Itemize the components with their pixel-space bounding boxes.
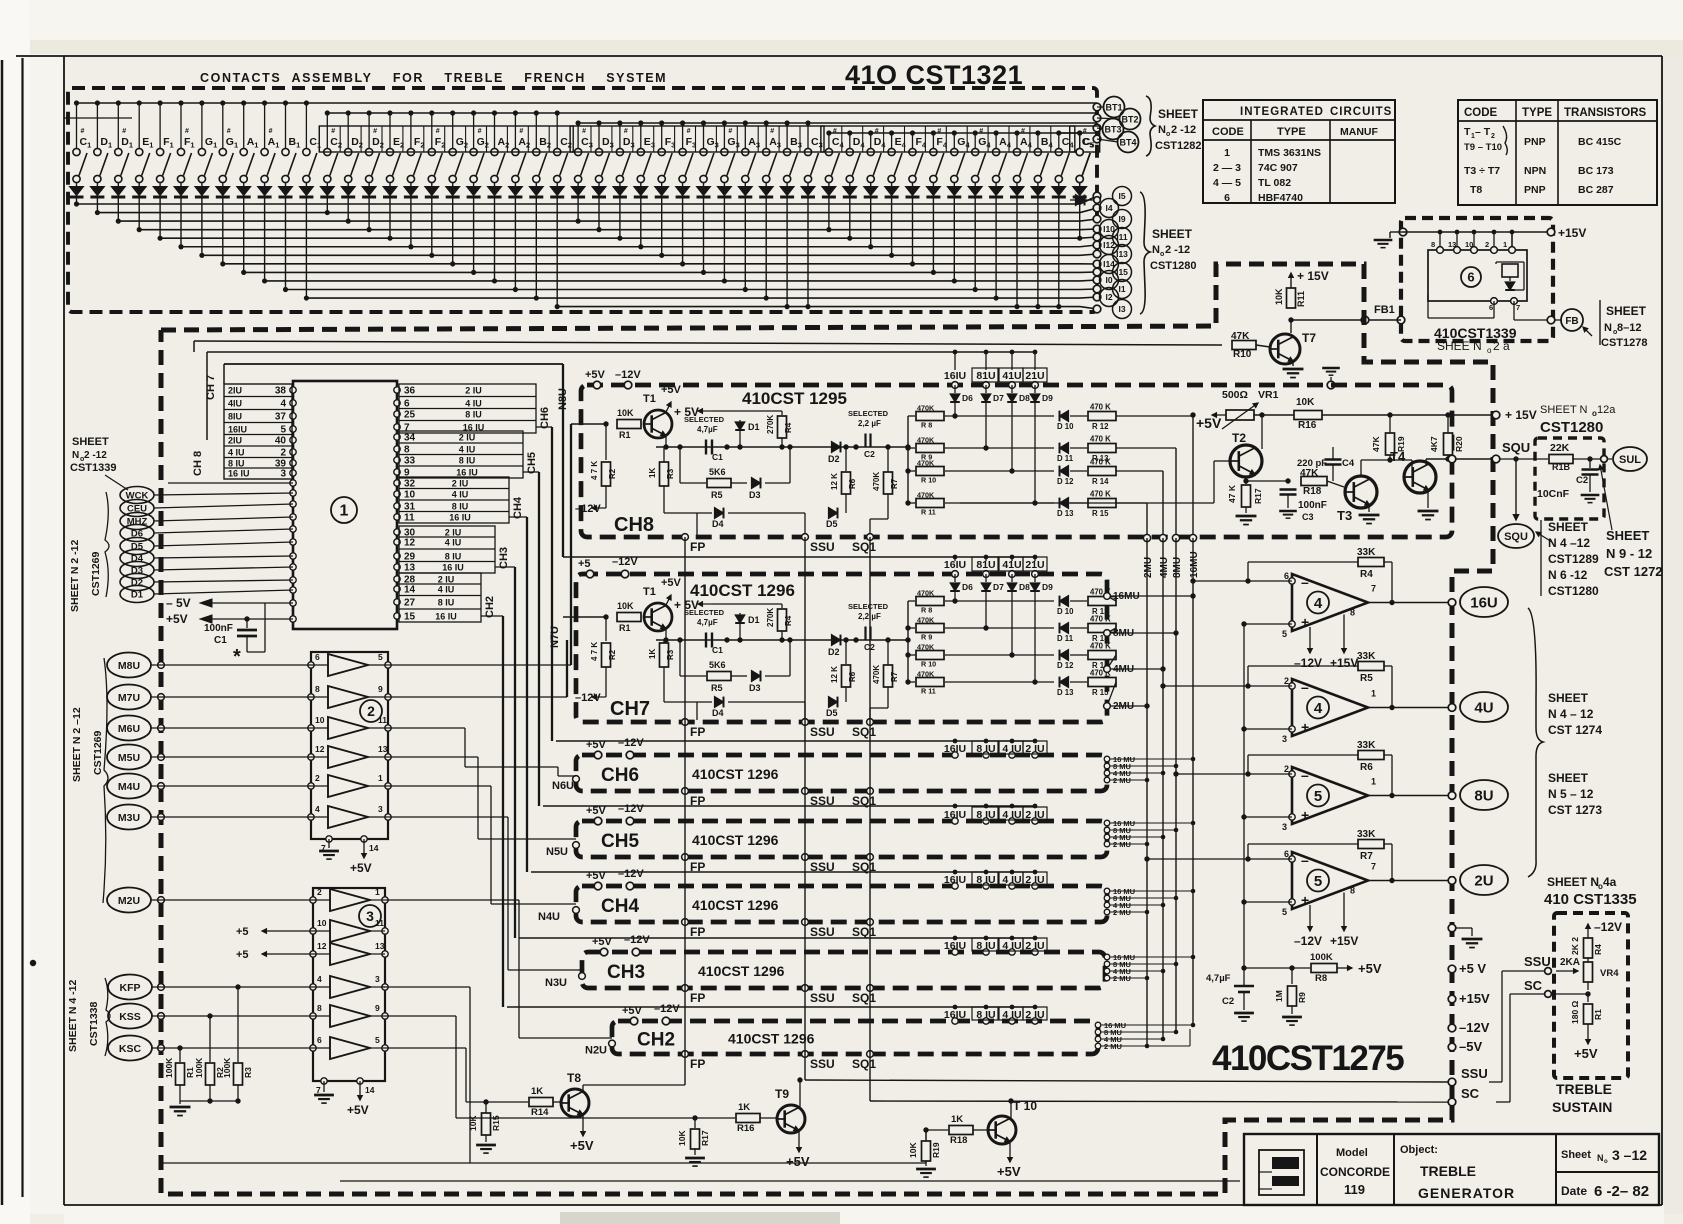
CH3 MU outputs to buses bbox=[1104, 954, 1110, 960]
svg-text:8: 8 bbox=[404, 445, 410, 456]
+5V rail to +15V terminal bbox=[1226, 414, 1496, 416]
svg-text:I9: I9 bbox=[1118, 214, 1125, 224]
svg-text:9: 9 bbox=[378, 684, 383, 694]
VR4 wiper to SC bbox=[1587, 982, 1589, 990]
resistor R2 47K bbox=[605, 617, 607, 641]
svg-text:100K: 100K bbox=[222, 1057, 232, 1078]
svg-text:8: 8 bbox=[315, 684, 320, 694]
svg-text:–12V: –12V bbox=[575, 503, 601, 515]
svg-text:R 10: R 10 bbox=[921, 476, 936, 485]
svg-text:8: 8 bbox=[317, 1003, 322, 1013]
svg-text:4 IU: 4 IU bbox=[438, 585, 455, 595]
svg-text:#: # bbox=[728, 128, 732, 135]
svg-text:R 11: R 11 bbox=[921, 508, 936, 517]
svg-text:#: # bbox=[1083, 128, 1087, 135]
svg-text:SQ1: SQ1 bbox=[852, 725, 876, 739]
svg-text:R 12: R 12 bbox=[1092, 422, 1109, 431]
svg-text:FP: FP bbox=[690, 540, 705, 554]
svg-text:I13: I13 bbox=[1116, 249, 1128, 259]
svg-text:CST 1272: CST 1272 bbox=[1604, 564, 1663, 579]
svg-text:D9: D9 bbox=[1042, 582, 1053, 592]
svg-text:5: 5 bbox=[1282, 907, 1287, 917]
T4 emitter ground bbox=[1427, 489, 1429, 508]
svg-text:7: 7 bbox=[1371, 862, 1376, 872]
svg-text:10: 10 bbox=[404, 490, 416, 501]
svg-text:+5V: +5V bbox=[570, 1138, 594, 1153]
svg-text:4 IU: 4 IU bbox=[459, 445, 476, 455]
svg-text:16U: 16U bbox=[1470, 594, 1498, 611]
svg-text:1K: 1K bbox=[951, 1114, 963, 1125]
CH7 MU output terminals bbox=[1104, 593, 1111, 600]
svg-text:3: 3 bbox=[1282, 822, 1287, 832]
wire SSU line bbox=[805, 1080, 1448, 1082]
resistor R7 470K to SQ1 bbox=[887, 640, 889, 665]
svg-text:2 IU: 2 IU bbox=[438, 575, 455, 585]
svg-text:D 11: D 11 bbox=[1057, 634, 1074, 643]
diode D4 and FP line bbox=[663, 486, 665, 513]
svg-text:–12V: –12V bbox=[624, 934, 650, 946]
svg-text:470K: 470K bbox=[917, 491, 935, 500]
stray mark left margin bbox=[30, 960, 36, 966]
circled inputs KFP KSS KSC bbox=[108, 975, 152, 1000]
SSU SC terminals bbox=[1448, 1078, 1456, 1086]
svg-text:4: 4 bbox=[1314, 700, 1323, 717]
svg-text:+15V: +15V bbox=[1330, 934, 1358, 948]
resistor R17 10K bbox=[692, 1115, 697, 1120]
op-amp 5 output R7 bbox=[1292, 852, 1368, 909]
svg-text:8 IU: 8 IU bbox=[459, 456, 476, 466]
svg-text:2IU: 2IU bbox=[228, 386, 242, 396]
svg-text:#: # bbox=[875, 128, 879, 135]
R2 to -12V arrow bbox=[605, 486, 607, 508]
svg-text:–: – bbox=[1301, 767, 1309, 783]
svg-text:5: 5 bbox=[378, 652, 383, 662]
svg-text:–5V: –5V bbox=[1459, 1039, 1482, 1054]
svg-text:KFP: KFP bbox=[120, 982, 141, 994]
svg-text:SHEET N: SHEET N bbox=[1547, 875, 1599, 889]
CH8 MU drop wires bbox=[1192, 416, 1194, 538]
svg-text:10: 10 bbox=[315, 715, 325, 725]
svg-text:34: 34 bbox=[404, 433, 416, 444]
svg-text:2 IU: 2 IU bbox=[459, 433, 476, 443]
svg-text:8IU: 8IU bbox=[228, 412, 242, 422]
svg-text:410 CST1335: 410 CST1335 bbox=[1544, 891, 1637, 908]
svg-text:N 5 – 12: N 5 – 12 bbox=[1548, 787, 1594, 801]
transistor T1 bbox=[644, 410, 672, 438]
CH8 MU bottom terminals and labels bbox=[1143, 534, 1150, 541]
svg-text:6: 6 bbox=[1284, 571, 1289, 581]
svg-text:1: 1 bbox=[1224, 147, 1230, 159]
svg-text:1K: 1K bbox=[738, 1102, 750, 1113]
ground at block6 input bbox=[1399, 228, 1407, 236]
capacitor C1 4.7uF selected bbox=[705, 633, 707, 648]
svg-text:CH 8: CH 8 bbox=[192, 451, 204, 476]
svg-text:BT3: BT3 bbox=[1104, 125, 1121, 135]
resistor R3 1K bbox=[663, 434, 665, 460]
svg-text:#: # bbox=[227, 128, 231, 135]
svg-text:R4: R4 bbox=[784, 615, 793, 626]
T7 emitter ground bbox=[1292, 361, 1294, 366]
block6 internal component bbox=[1502, 264, 1518, 277]
svg-text:– T: – T bbox=[1475, 126, 1491, 138]
CH2 FP SSU SQ1 terminals bbox=[682, 1051, 689, 1058]
transistor T8 bbox=[561, 1089, 589, 1117]
svg-text:74C 907: 74C 907 bbox=[1258, 162, 1298, 174]
IC block 6 dashed box 410CST1339 bbox=[1401, 218, 1553, 341]
svg-text:8U: 8U bbox=[1474, 787, 1493, 804]
svg-text:R5: R5 bbox=[711, 490, 723, 500]
resistor R6 12K and diode D5 bbox=[845, 447, 847, 471]
CH6 IU labels and feed line bbox=[556, 740, 1035, 742]
svg-text:4U: 4U bbox=[1474, 699, 1493, 716]
svg-text:–12V: –12V bbox=[618, 803, 644, 815]
long wire B bbox=[340, 1180, 1240, 1182]
ladder resistors R8-R11 470K bbox=[907, 601, 909, 682]
svg-text:12: 12 bbox=[315, 744, 325, 754]
op-amp 5 output R6 bbox=[1292, 767, 1368, 824]
svg-text:41O CST1321: 41O CST1321 bbox=[845, 60, 1023, 90]
power terminals +5V +15V -12V -5V bbox=[1448, 965, 1456, 973]
svg-text:C1: C1 bbox=[712, 452, 723, 462]
svg-text:10K: 10K bbox=[908, 1142, 918, 1158]
svg-text:R14: R14 bbox=[531, 1107, 549, 1118]
svg-text:100nF: 100nF bbox=[204, 623, 233, 634]
svg-text:3: 3 bbox=[375, 974, 380, 984]
svg-text:SSU: SSU bbox=[810, 925, 835, 939]
wire long line IC to T7 base bbox=[194, 341, 1222, 345]
svg-text:SHEET N 4 -12: SHEET N 4 -12 bbox=[67, 979, 79, 1052]
wires IC1 top to right routing bbox=[396, 341, 398, 345]
svg-text:SHEET: SHEET bbox=[1548, 691, 1589, 705]
block3 ground pin7 bbox=[323, 1081, 325, 1092]
transistor T10 bbox=[988, 1116, 1016, 1144]
svg-text:I0: I0 bbox=[1105, 275, 1112, 285]
svg-text:8 IU: 8 IU bbox=[445, 552, 462, 562]
svg-text:2 IU: 2 IU bbox=[465, 386, 482, 396]
svg-text:+15V: +15V bbox=[1330, 656, 1358, 670]
svg-text:+5V: +5V bbox=[585, 369, 606, 381]
svg-text:SQ1: SQ1 bbox=[852, 991, 876, 1005]
svg-text:R7: R7 bbox=[890, 671, 899, 682]
capacitor C2 2.2uF selected bbox=[864, 434, 866, 447]
svg-text:1: 1 bbox=[1371, 777, 1376, 787]
wire N input to R1 bbox=[571, 423, 606, 425]
T3 emitter ground bbox=[1368, 504, 1370, 512]
svg-text:SSU: SSU bbox=[1461, 1066, 1488, 1081]
svg-text:2KA: 2KA bbox=[1560, 957, 1580, 968]
svg-text:TMS 3631NS: TMS 3631NS bbox=[1258, 147, 1321, 159]
svg-text:5: 5 bbox=[280, 425, 286, 436]
svg-text:GENERATOR: GENERATOR bbox=[1418, 1185, 1515, 1201]
IC block 2 hex inverter bbox=[311, 652, 388, 839]
svg-text:#: # bbox=[185, 128, 189, 135]
CH3 IU labels and feed line bbox=[519, 937, 1035, 939]
svg-text:1M: 1M bbox=[1274, 990, 1284, 1002]
svg-text:#: # bbox=[122, 128, 126, 135]
brace sheet ref I bbox=[1140, 192, 1150, 314]
svg-text:CST1269: CST1269 bbox=[90, 551, 102, 596]
svg-text:25: 25 bbox=[404, 410, 416, 421]
capacitor C4 220pF bbox=[1288, 480, 1300, 482]
svg-text:SHEET: SHEET bbox=[1606, 304, 1647, 318]
svg-text:–12V: –12V bbox=[615, 369, 641, 381]
circled I labels bbox=[1113, 187, 1132, 206]
svg-text:7: 7 bbox=[1371, 584, 1376, 594]
svg-text:2 a: 2 a bbox=[1493, 339, 1510, 353]
svg-text:470K: 470K bbox=[917, 404, 935, 413]
resistor R18 1K bbox=[926, 1129, 948, 1131]
svg-text:470 K: 470 K bbox=[1090, 458, 1111, 467]
svg-text:R6: R6 bbox=[1360, 762, 1373, 773]
svg-text:D7: D7 bbox=[993, 582, 1004, 592]
svg-text:SHEET: SHEET bbox=[1548, 520, 1589, 534]
T1 collector wire bbox=[665, 627, 667, 640]
svg-text:#: # bbox=[81, 128, 85, 135]
svg-text:SC: SC bbox=[1524, 978, 1543, 993]
svg-text:SQ1: SQ1 bbox=[852, 925, 876, 939]
diode to I4 terminal bbox=[1079, 182, 1081, 200]
capacitor C1 4.7uF selected bbox=[705, 440, 707, 455]
svg-text:16 IU: 16 IU bbox=[449, 513, 471, 523]
svg-text:CST1338: CST1338 bbox=[88, 1001, 100, 1046]
CH6 MU outputs to buses bbox=[1104, 756, 1110, 762]
T1 emitter +5V bbox=[666, 595, 671, 605]
IC 1 TMS3631 body bbox=[293, 381, 397, 629]
svg-text:#: # bbox=[331, 128, 335, 135]
block3 +5 inputs bbox=[262, 930, 282, 932]
svg-text:TREBLE: TREBLE bbox=[1420, 1163, 1476, 1179]
capacitor C2 100nF bbox=[1589, 459, 1591, 468]
svg-text:4 7 K: 4 7 K bbox=[590, 461, 599, 480]
svg-text:T9: T9 bbox=[775, 1087, 789, 1101]
CH7 FP SSU SQ1 terminals bbox=[682, 719, 689, 726]
MU bus lower corners bbox=[1147, 1045, 1190, 1047]
svg-text:16 IU: 16 IU bbox=[228, 469, 250, 479]
svg-text:470 K: 470 K bbox=[1090, 615, 1111, 624]
svg-text:10CnF: 10CnF bbox=[1537, 488, 1570, 500]
svg-text:FP: FP bbox=[690, 925, 705, 939]
svg-text:470 K: 470 K bbox=[1090, 642, 1111, 651]
svg-text:N: N bbox=[1152, 244, 1160, 256]
svg-text:D 11: D 11 bbox=[1057, 454, 1074, 463]
svg-text:Sheet: Sheet bbox=[1561, 1149, 1591, 1161]
svg-text:12: 12 bbox=[404, 538, 416, 549]
R2 to -12V arrow bbox=[605, 667, 607, 697]
CH5 dashed box 410CST1296 bbox=[576, 821, 1107, 857]
diode D1 selected bbox=[739, 613, 741, 640]
svg-text:T9 – T10: T9 – T10 bbox=[1464, 142, 1502, 153]
svg-text:D2: D2 bbox=[131, 577, 143, 588]
svg-text:+15V: +15V bbox=[1558, 226, 1586, 240]
resistor R11 10K and +15V bbox=[1290, 320, 1292, 333]
CH2 MU outputs to buses bbox=[1095, 1022, 1101, 1028]
svg-text:#: # bbox=[436, 128, 440, 135]
svg-text:CH4: CH4 bbox=[512, 496, 524, 519]
svg-text:FP: FP bbox=[690, 1057, 705, 1071]
block6 circled 6 bbox=[1461, 267, 1481, 287]
svg-text:CST 1273: CST 1273 bbox=[1548, 803, 1602, 817]
svg-text:470K: 470K bbox=[917, 459, 935, 468]
wire KSC output to T8 bbox=[385, 1047, 466, 1049]
svg-text:+: + bbox=[1301, 719, 1309, 735]
+5V arrow feed bbox=[712, 410, 782, 412]
svg-text:9: 9 bbox=[375, 1003, 380, 1013]
svg-text:PNP: PNP bbox=[1524, 184, 1546, 196]
svg-text:#: # bbox=[1021, 128, 1025, 135]
T8 collector to FP bus bbox=[582, 1085, 584, 1092]
svg-text:I4: I4 bbox=[1105, 203, 1112, 213]
resistor R3 1K bbox=[663, 627, 665, 641]
svg-text:SHEET N: SHEET N bbox=[1540, 404, 1588, 416]
svg-text:FP: FP bbox=[690, 991, 705, 1005]
svg-text:M5U: M5U bbox=[118, 752, 140, 764]
svg-text:#: # bbox=[687, 128, 691, 135]
svg-text:CST1282: CST1282 bbox=[1155, 140, 1201, 152]
CH4 dashed box 410CST1296 bbox=[576, 886, 1107, 922]
IC1 left label grid CH7 CH8 bbox=[224, 384, 292, 479]
svg-text:–: – bbox=[1301, 852, 1309, 868]
svg-text:8: 8 bbox=[1350, 886, 1355, 896]
svg-text:470K: 470K bbox=[917, 436, 935, 445]
svg-text:1: 1 bbox=[1503, 240, 1507, 249]
resistor R9 1M bbox=[1291, 968, 1293, 984]
svg-text:+ 5V: + 5V bbox=[674, 405, 699, 419]
title block outer box bbox=[1244, 1134, 1659, 1205]
svg-text:100K: 100K bbox=[194, 1057, 204, 1078]
svg-text:D 10: D 10 bbox=[1057, 607, 1074, 616]
CH8 oscillator dashed box 410CST1295 bbox=[581, 385, 1452, 537]
svg-text:C2: C2 bbox=[864, 449, 875, 459]
transistor T3 bbox=[1345, 476, 1377, 508]
resistor R18 22K bbox=[1549, 455, 1573, 464]
svg-text:6: 6 bbox=[1284, 849, 1289, 859]
resistors R1 R2 R3 100K pulldowns bbox=[177, 1045, 182, 1050]
svg-text:–: – bbox=[1301, 574, 1309, 590]
svg-text:SSU: SSU bbox=[810, 725, 835, 739]
svg-text:R11: R11 bbox=[1296, 291, 1306, 307]
svg-text:36: 36 bbox=[404, 386, 416, 397]
svg-text:40: 40 bbox=[275, 436, 287, 447]
CH6 dashed box 410CST1296 bbox=[576, 755, 1107, 791]
block2 ground pin7 bbox=[328, 839, 330, 848]
svg-text:470 K: 470 K bbox=[1090, 403, 1111, 412]
svg-text:410CST 1296: 410CST 1296 bbox=[698, 963, 785, 979]
svg-text:M6U: M6U bbox=[118, 723, 140, 735]
T9 collector to SSU line bbox=[799, 1080, 801, 1108]
svg-text:R9: R9 bbox=[1297, 992, 1307, 1003]
svg-text:o: o bbox=[1160, 251, 1164, 258]
IC block 3 hex inverter bbox=[313, 888, 385, 1081]
potentiometer VR4 2KA bbox=[1584, 962, 1593, 982]
svg-text:2MU: 2MU bbox=[1143, 557, 1154, 578]
svg-text:470K: 470K bbox=[917, 616, 935, 625]
op-amp 4 output R4 bbox=[1292, 574, 1368, 631]
svg-text:R3: R3 bbox=[243, 1067, 253, 1078]
svg-text:R6: R6 bbox=[848, 671, 857, 682]
svg-text:R1B: R1B bbox=[1552, 462, 1571, 472]
CH5 MU outputs to buses bbox=[1104, 820, 1110, 826]
svg-text:2: 2 bbox=[1284, 764, 1289, 774]
svg-text:47K: 47K bbox=[1300, 468, 1319, 479]
svg-text:BT2: BT2 bbox=[1121, 115, 1138, 125]
svg-text:16 IU: 16 IU bbox=[442, 563, 464, 573]
svg-text:R 8: R 8 bbox=[921, 606, 932, 615]
svg-text:R1: R1 bbox=[619, 430, 631, 440]
svg-text:#: # bbox=[833, 128, 837, 135]
svg-text:N 4 –12: N 4 –12 bbox=[1548, 536, 1590, 550]
svg-text:–12V: –12V bbox=[1459, 1020, 1490, 1035]
svg-text:+ 15V: + 15V bbox=[1297, 269, 1329, 283]
svg-text:D9: D9 bbox=[1042, 393, 1053, 403]
ground stub on oscillator border bbox=[1327, 381, 1335, 389]
svg-text:T1: T1 bbox=[643, 393, 656, 405]
CH6 FP SSU SQ1 terminals bbox=[682, 788, 689, 795]
svg-text:4: 4 bbox=[317, 974, 322, 984]
key C5 bbox=[1070, 126, 1100, 152]
CH4 MU outputs to buses bbox=[1104, 888, 1110, 894]
svg-text:47 K: 47 K bbox=[1227, 484, 1237, 503]
svg-text:R16: R16 bbox=[1298, 420, 1317, 431]
svg-text:D1: D1 bbox=[748, 615, 760, 625]
resistor R4 270K bbox=[781, 604, 783, 608]
diode D1 selected bbox=[739, 420, 741, 447]
CST1280 small dashed box bbox=[1535, 438, 1604, 519]
svg-text:R17: R17 bbox=[700, 1130, 710, 1146]
svg-text:100nF: 100nF bbox=[1298, 500, 1327, 511]
svg-text:N7U: N7U bbox=[549, 626, 561, 648]
svg-text:3 –12: 3 –12 bbox=[1612, 1147, 1647, 1163]
svg-text:–12V: –12V bbox=[618, 868, 644, 880]
svg-text:R 15: R 15 bbox=[1092, 688, 1109, 697]
svg-text:SQU: SQU bbox=[1502, 440, 1530, 455]
block2 +5V pin14 bbox=[363, 839, 365, 858]
svg-text:R5: R5 bbox=[1360, 673, 1373, 684]
svg-text:N 9 - 12: N 9 - 12 bbox=[1606, 546, 1652, 561]
svg-text:2,2 µF: 2,2 µF bbox=[858, 419, 881, 428]
svg-text:10K: 10K bbox=[1296, 397, 1315, 408]
svg-text:10: 10 bbox=[317, 918, 327, 928]
svg-text:3: 3 bbox=[1282, 734, 1287, 744]
svg-text:SUSTAIN: SUSTAIN bbox=[1552, 1099, 1612, 1115]
svg-text:–: – bbox=[1301, 679, 1309, 695]
svg-text:+5V: +5V bbox=[1574, 1046, 1598, 1061]
svg-text:2 IU: 2 IU bbox=[445, 528, 462, 538]
svg-text:R3: R3 bbox=[666, 468, 675, 479]
svg-text:TYPE: TYPE bbox=[1277, 126, 1306, 138]
svg-text:R16: R16 bbox=[737, 1123, 754, 1134]
svg-text:o: o bbox=[1487, 346, 1492, 355]
svg-text:R4: R4 bbox=[1593, 944, 1603, 955]
resistor R16 1K bbox=[695, 1117, 735, 1119]
svg-text:N5U: N5U bbox=[546, 846, 568, 858]
C3 100nF bbox=[1246, 480, 1288, 482]
svg-text:T8: T8 bbox=[1470, 184, 1482, 196]
svg-text:5: 5 bbox=[1282, 629, 1287, 639]
svg-text:PNP: PNP bbox=[1524, 136, 1546, 148]
svg-text:R17: R17 bbox=[1253, 488, 1263, 504]
svg-text:CONTACTS ASSEMBLY FOR T: CONTACTS ASSEMBLY FOR TREBLE FRENCH SYST… bbox=[200, 71, 667, 85]
svg-text:27: 27 bbox=[404, 598, 416, 609]
svg-text:R7: R7 bbox=[890, 478, 899, 489]
svg-text:HBF4740: HBF4740 bbox=[1258, 192, 1303, 204]
svg-text:#: # bbox=[373, 128, 377, 135]
FB circled output bbox=[1555, 319, 1562, 321]
FP SSU SQ1 vertical bus lines bbox=[684, 537, 686, 1085]
svg-text:100K: 100K bbox=[1310, 952, 1333, 963]
svg-text:R 9: R 9 bbox=[921, 633, 932, 642]
svg-text:16 IU: 16 IU bbox=[456, 468, 478, 478]
svg-text:14: 14 bbox=[369, 843, 379, 853]
